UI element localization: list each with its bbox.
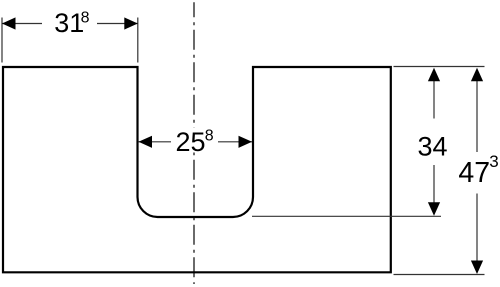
svg-text:8: 8 [205,127,214,144]
svg-text:3: 3 [489,152,498,171]
svg-text:25: 25 [176,127,206,157]
svg-text:34: 34 [417,132,447,162]
svg-text:8: 8 [81,10,90,27]
svg-text:47: 47 [458,157,490,189]
